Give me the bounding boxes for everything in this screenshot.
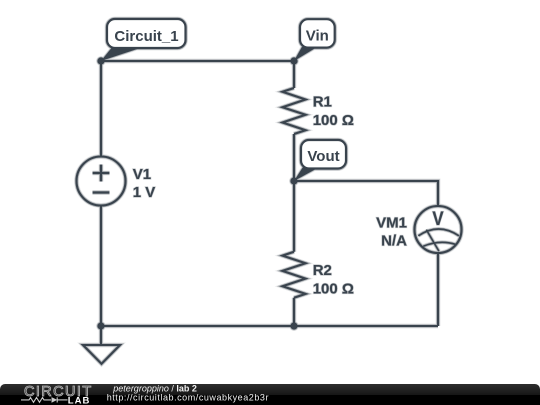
svg-text:LAB: LAB <box>68 395 91 405</box>
svg-text:http://circuitlab.com/cuwabkye: http://circuitlab.com/cuwabkyea2b3r <box>107 393 269 403</box>
